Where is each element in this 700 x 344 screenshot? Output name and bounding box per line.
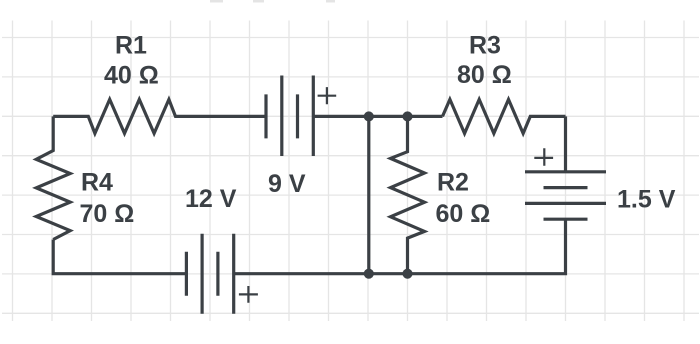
wire from 9V battery to R3 <box>313 115 442 118</box>
resistor R3 <box>443 99 566 133</box>
resistor R2 branch <box>391 116 425 273</box>
battery V1 12V plates <box>186 234 233 314</box>
svg-text:1.5 V: 1.5 V <box>617 185 676 213</box>
wire 1.5V battery to bottom right corner <box>234 219 566 274</box>
svg-text:80 Ω: 80 Ω <box>457 61 512 89</box>
svg-text:R2: R2 <box>437 169 469 197</box>
node B top-right junction <box>402 111 412 121</box>
wire top-left + resistor R1 <box>53 99 266 133</box>
wire middle vertical branch <box>367 116 370 273</box>
node D bottom-right junction <box>402 269 412 279</box>
svg-text:70 Ω: 70 Ω <box>80 200 135 228</box>
svg-text:R1: R1 <box>115 32 147 60</box>
battery V2 9V plates <box>266 76 313 157</box>
svg-text:12 V: 12 V <box>185 185 237 213</box>
plus sign of 9V battery <box>239 87 553 303</box>
svg-text:R3: R3 <box>469 31 501 59</box>
plus sign of 1.5V battery <box>534 148 553 165</box>
node A top-left junction <box>364 111 374 121</box>
svg-text:60 Ω: 60 Ω <box>436 200 491 228</box>
wire right vertical to 1.5V battery <box>564 116 567 171</box>
wire bottom-left <box>53 240 186 274</box>
resistor R4 <box>36 116 70 239</box>
battery V3 1.5V plates <box>525 172 606 219</box>
cropped text remnants at top edge <box>210 0 335 3</box>
svg-text:9 V: 9 V <box>268 170 306 198</box>
svg-text:40 Ω: 40 Ω <box>104 61 159 89</box>
plus sign of 12V battery <box>239 286 258 303</box>
node C bottom-left junction <box>364 269 374 279</box>
svg-text:R4: R4 <box>81 169 113 197</box>
